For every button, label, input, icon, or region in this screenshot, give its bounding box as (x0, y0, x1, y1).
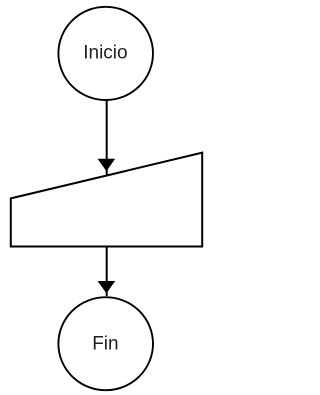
wire arrow 1 (Inicio to manual input) (106, 100, 108, 175)
arrowhead 2 (98, 281, 116, 293)
node Inicio (start terminal circle) (58, 7, 153, 100)
arrowhead 1 (98, 159, 116, 172)
manual input shape (11, 153, 202, 247)
node Fin (end terminal circle) (58, 297, 153, 390)
svg-text:Inicio: Inicio (83, 42, 127, 63)
svg-text:Fin: Fin (92, 334, 118, 355)
wire arrow 2 (manual input to Fin) (106, 247, 108, 297)
